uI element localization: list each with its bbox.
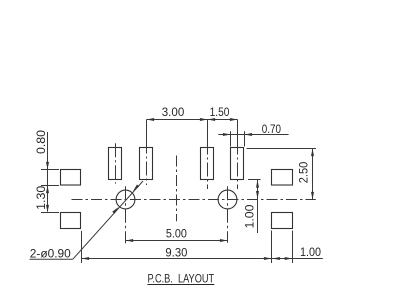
- svg-text:3.00: 3.00: [162, 107, 185, 119]
- svg-text:2-ø0.90: 2-ø0.90: [30, 248, 71, 260]
- svg-text:9.30: 9.30: [165, 247, 187, 259]
- svg-text:2.50: 2.50: [299, 162, 311, 184]
- svg-text:1.00: 1.00: [300, 247, 321, 259]
- svg-text:P.C.B. LAYOUT: P.C.B. LAYOUT: [147, 274, 214, 286]
- svg-text:0.70: 0.70: [262, 124, 281, 136]
- svg-text:1.50: 1.50: [210, 107, 230, 119]
- svg-text:0.80: 0.80: [36, 130, 48, 154]
- svg-text:5.00: 5.00: [166, 229, 187, 241]
- svg-text:1.00: 1.00: [244, 204, 256, 228]
- svg-text:1.30: 1.30: [36, 186, 48, 210]
